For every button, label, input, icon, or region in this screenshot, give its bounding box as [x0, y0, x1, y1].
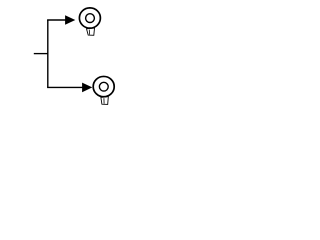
arrowhead: top branch: [65, 15, 75, 25]
icon: bottom indicator (circle with ring and base): [93, 76, 114, 104]
wire: left input stub: [34, 53, 49, 55]
arrowhead: bottom branch: [82, 83, 92, 93]
wire: vertical bus: [47, 20, 49, 87]
wire: bottom branch: [47, 86, 83, 88]
wire: top branch: [47, 19, 66, 21]
icon: top indicator (circle with ring and base): [79, 8, 100, 35]
